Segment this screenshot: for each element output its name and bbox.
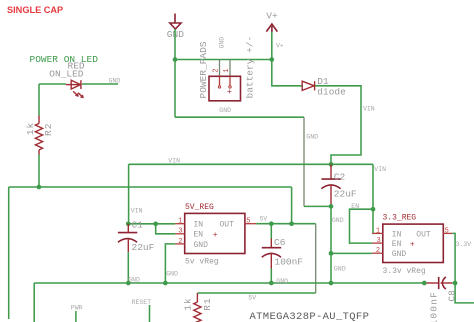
svg-text:VIN: VIN: [131, 208, 143, 215]
svg-text:5V: 5V: [248, 295, 256, 302]
svg-text:3: 3: [377, 237, 381, 245]
wire 5vreg GND pin down: [165, 244, 175, 283]
wire GND bus left drop: [33, 283, 35, 322]
3.3reg pin stub OUT: [443, 232, 452, 234]
svg-text:OUT: OUT: [416, 230, 431, 239]
junction C8 right 3.3v node: [453, 281, 458, 286]
regulator 3.3_REG box: [383, 224, 444, 262]
svg-text:5V: 5V: [260, 216, 268, 223]
svg-text:R1: R1: [202, 297, 213, 310]
wire EN jog 3.3reg: [350, 209, 374, 243]
ground symbol top: [170, 14, 181, 30]
wire 3.3v out: [452, 233, 455, 283]
svg-text:ATMEGA328P-AU_TQFP: ATMEGA328P-AU_TQFP: [250, 311, 370, 322]
LED D ON_LED symbol: [66, 80, 84, 98]
wire VIN corner down to 3.3 IN node: [372, 164, 374, 209]
junction EN tie 5vreg: [153, 221, 158, 226]
svg-text:OUT: OUT: [220, 221, 235, 230]
svg-text:SINGLE CAP: SINGLE CAP: [7, 5, 63, 15]
wire 5V out row: [256, 223, 316, 225]
svg-text:5: 5: [246, 218, 250, 226]
svg-text:GND: GND: [332, 217, 344, 224]
svg-text:VIN: VIN: [363, 106, 375, 113]
svg-text:+: +: [227, 88, 232, 97]
svg-text:ON_LED: ON_LED: [49, 68, 84, 79]
svg-text:+: +: [213, 231, 218, 240]
3.3reg pin stub EN: [372, 242, 383, 244]
svg-text:1k: 1k: [25, 122, 36, 135]
svg-text:1k: 1k: [183, 297, 194, 310]
svg-text:C8: C8: [447, 290, 458, 302]
svg-text:+: +: [410, 240, 415, 249]
5vreg pin stub EN: [175, 233, 185, 235]
wire 5V branch to R1: [315, 224, 317, 293]
svg-text:GND: GND: [306, 134, 318, 141]
svg-text:GND: GND: [194, 241, 209, 250]
svg-text:GND: GND: [334, 265, 346, 272]
junction C6 top: [269, 221, 274, 226]
svg-text:EN: EN: [351, 203, 359, 210]
svg-text:VIN: VIN: [168, 157, 180, 164]
wire GND vertical right: [303, 117, 305, 206]
wire 5V bus horizontal: [9, 186, 292, 188]
wire C8 to 3.3 node: [452, 282, 455, 284]
wire V+ stub: [271, 32, 273, 60]
svg-text:V+: V+: [276, 43, 284, 50]
svg-text:C2: C2: [334, 171, 346, 182]
junction VIN / C2 top: [329, 162, 334, 167]
wire C2 node down to EN tie: [330, 206, 332, 283]
junction GND tie row: [329, 251, 334, 256]
wire GND row under battery: [175, 116, 304, 118]
3.3reg pin stub IN: [372, 232, 383, 234]
svg-text:diode: diode: [317, 86, 346, 97]
svg-text:GND: GND: [276, 278, 288, 285]
wire C1 node to 5vreg pins: [128, 223, 175, 225]
wire GND symbol down: [174, 29, 176, 117]
svg-text:1: 1: [223, 68, 231, 72]
junction V+ / battery row: [269, 57, 274, 62]
capacitor C8: [424, 277, 452, 289]
svg-text:R2: R2: [43, 123, 54, 136]
svg-text:GND: GND: [219, 37, 226, 49]
wire R1 top row: [197, 292, 315, 294]
wire left edge vertical: [8, 187, 10, 319]
resistor R2: [35, 116, 42, 155]
capacitor C6: [262, 224, 281, 283]
battery pin 2 wire: [219, 60, 221, 77]
wire RESET stub: [149, 305, 151, 322]
svg-text:1: 1: [376, 227, 380, 235]
wire LED cathode to GND stub: [82, 83, 118, 85]
svg-text:C6: C6: [274, 237, 286, 248]
wire 3.3v exit right: [455, 283, 474, 303]
svg-text:5V_REG: 5V_REG: [185, 203, 214, 212]
wire PWR stub: [75, 311, 77, 322]
svg-text:V+: V+: [266, 10, 278, 21]
wire diode to VIN drop: [315, 86, 361, 165]
3.3reg pin stub GND: [372, 252, 383, 254]
supply symbol V+: [266, 24, 277, 32]
wire VIN left vertical: [128, 164, 130, 224]
wire GND tie 3.3reg: [331, 252, 372, 254]
wire GND bus bottom: [34, 282, 424, 284]
wire GND into C2 bottom node: [304, 205, 331, 207]
svg-text:GND: GND: [128, 276, 140, 283]
svg-text:PWR: PWR: [71, 305, 83, 312]
wire IN drop 3.3reg: [371, 209, 374, 233]
junction GND wire / battery row: [173, 57, 178, 62]
svg-text:RESET: RESET: [132, 299, 152, 306]
wire V+ down to diode: [272, 60, 302, 86]
svg-text:GND: GND: [109, 78, 121, 85]
svg-text:100nF: 100nF: [275, 257, 304, 268]
wire EN jog 5vreg: [156, 224, 176, 234]
5vreg pin stub OUT: [245, 223, 256, 225]
svg-text:2: 2: [178, 238, 182, 246]
5vreg pin stub GND: [175, 243, 185, 245]
svg-text:GND: GND: [392, 250, 407, 259]
junction C6 bus: [269, 281, 274, 286]
wire LED row down to R2: [38, 84, 40, 116]
svg-text:3.3V: 3.3V: [456, 241, 472, 248]
svg-text:POWER_PADS: POWER_PADS: [198, 41, 209, 98]
svg-text:22uF: 22uF: [132, 242, 155, 253]
svg-text:IN: IN: [392, 230, 402, 239]
wire LED anode row: [39, 83, 66, 85]
junction R2 / 5V bus: [37, 185, 42, 190]
junction 3.3reg IN node: [371, 207, 376, 212]
junction C1 top node: [126, 221, 131, 226]
svg-text:2: 2: [376, 247, 380, 255]
svg-text:5: 5: [445, 227, 449, 235]
svg-text:22uF: 22uF: [334, 189, 357, 200]
svg-text:GND: GND: [166, 271, 178, 278]
regulator 5V_REG box: [185, 213, 245, 253]
junction C2 column bus: [329, 281, 334, 286]
svg-text:2: 2: [213, 68, 221, 72]
svg-text:100nF: 100nF: [428, 291, 439, 322]
wire C1 bottom to GND bus: [127, 252, 129, 283]
junction 5V riser: [289, 221, 294, 226]
diode D1: [302, 81, 314, 90]
resistor R1: [194, 293, 201, 322]
wire 5V riser from bus: [291, 187, 293, 224]
wire VIN horizontal row: [129, 163, 373, 165]
junction C8 left bus: [422, 281, 427, 286]
svg-text:EN: EN: [392, 240, 402, 249]
battery box: [209, 76, 241, 101]
svg-text:POWER ON LED: POWER ON LED: [30, 54, 99, 65]
capacitor C1: [118, 224, 137, 252]
svg-text:1: 1: [178, 218, 182, 226]
5vreg pin stub IN: [175, 223, 185, 225]
svg-text:EN: EN: [194, 231, 204, 240]
wire R2 bottom to 5V bus: [38, 155, 40, 188]
junction C2 bottom node: [329, 204, 334, 209]
svg-text:battery +/-: battery +/-: [245, 36, 256, 99]
svg-text:5v vReg: 5v vReg: [185, 258, 219, 267]
capacitor C2: [321, 164, 340, 206]
svg-text:3.3v vReg: 3.3v vReg: [383, 267, 426, 276]
svg-text:VIN: VIN: [374, 166, 386, 173]
svg-text:IN: IN: [194, 221, 204, 230]
svg-text:GND: GND: [219, 107, 231, 114]
svg-text:3: 3: [178, 228, 182, 236]
junction 5vreg GND bus: [163, 281, 168, 286]
battery pin 1 wire: [229, 60, 231, 77]
svg-text:C1: C1: [132, 220, 144, 231]
junction C1 bus: [126, 281, 131, 286]
svg-text:3.3_REG: 3.3_REG: [383, 214, 417, 223]
wire battery top row: [175, 59, 272, 61]
